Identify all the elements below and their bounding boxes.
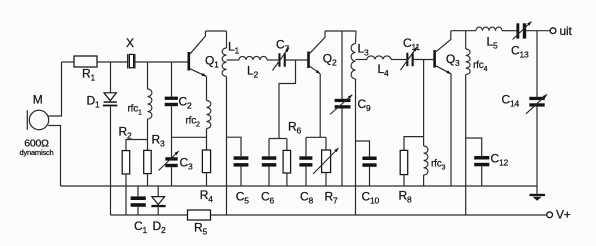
terminal V+	[547, 212, 553, 218]
svg-text:X: X	[126, 36, 134, 50]
wire V+ rail right	[211, 214, 547, 216]
wire rail2	[325, 30, 356, 32]
wire D2 bottom	[157, 207, 159, 215]
label D2	[153, 219, 166, 235]
label V+	[556, 208, 571, 222]
label M	[33, 92, 43, 106]
microphone M	[27, 110, 48, 130]
wire R3 bottom	[147, 174, 149, 186]
wire C9 bottom	[341, 109, 343, 187]
crystal X	[128, 54, 135, 69]
label rfc4	[473, 60, 488, 73]
capacitor C10	[362, 157, 376, 167]
capacitor C7 variable	[273, 48, 290, 71]
wire mic bottom lead	[48, 126, 60, 187]
wire R8 bottom	[403, 175, 405, 186]
inductor L3	[351, 31, 356, 79]
capacitor C9 variable	[330, 95, 352, 115]
label 600 ohm	[24, 138, 49, 150]
inductor L2	[239, 56, 267, 60]
label R1	[82, 67, 95, 83]
svg-text:dynamisch: dynamisch	[19, 148, 53, 157]
label L5	[487, 35, 498, 51]
wire rfc2 to R4	[206, 129, 208, 151]
inductor L5	[476, 27, 502, 31]
wire C3 bottom	[171, 167, 173, 186]
wire R1 to X	[97, 61, 127, 63]
label C1	[134, 219, 147, 235]
svg-text:V+: V+	[556, 208, 571, 222]
wire L1 tap to L2	[227, 59, 240, 61]
wire C10 branch	[356, 141, 370, 157]
wire rfc3 bottom	[423, 175, 425, 186]
wire R2 top	[126, 140, 148, 151]
label C5	[236, 189, 249, 205]
svg-text:uit: uit	[560, 24, 573, 38]
wire emitter2 junction	[306, 136, 326, 138]
wire L5 to C13	[502, 30, 516, 32]
label C7	[276, 38, 289, 54]
label R4	[200, 188, 213, 204]
wire R6 top	[286, 139, 288, 151]
wire C13 to uit	[526, 30, 550, 32]
label C11	[403, 36, 420, 52]
wire C5 bottom	[240, 167, 242, 186]
label rfc2	[186, 115, 201, 128]
wire C14 top	[536, 31, 538, 97]
wire C2 to C3	[171, 106, 173, 157]
wire L4 to C11	[391, 59, 406, 61]
label R8	[399, 189, 412, 205]
wire C2 top	[171, 62, 173, 97]
wire Q3 emitter to ground bus	[450, 74, 452, 186]
label X	[126, 36, 134, 50]
label R3	[152, 133, 165, 149]
wire Q2 emitter down	[319, 74, 321, 138]
wire mic top lead	[48, 62, 61, 116]
wire C1 top	[137, 186, 139, 196]
capacitor C1	[131, 196, 146, 206]
wire C6 top	[268, 139, 270, 157]
wire L1 bottom to V+ rail	[226, 77, 228, 216]
label Q3	[446, 52, 460, 68]
label uit	[560, 24, 573, 38]
wire D1 top	[110, 62, 112, 93]
resistor R5	[188, 210, 211, 220]
wire D1 to V+ rail	[110, 106, 112, 215]
label C2	[179, 95, 192, 111]
wire base2 drop	[279, 60, 296, 139]
wire ground bus	[61, 185, 538, 187]
wire R4 bottom	[206, 173, 208, 186]
capacitor C8	[299, 156, 312, 166]
inductor rfc4	[466, 31, 470, 75]
wire split C6 R6	[269, 138, 287, 140]
label Q2	[323, 52, 337, 68]
capacitor C2	[165, 97, 178, 107]
diode D2	[151, 197, 165, 208]
wire C8 top	[305, 137, 307, 156]
label L4	[378, 62, 389, 78]
label rfc1	[128, 103, 143, 116]
label L1	[228, 40, 239, 56]
wire C1 bottom	[137, 207, 139, 215]
wire rfc4 to V+ rail	[465, 75, 467, 216]
wire L3 tap to L4	[356, 59, 368, 61]
wire R8 top	[404, 137, 424, 151]
resistor R8	[400, 150, 408, 174]
ground	[530, 186, 546, 201]
inductor rfc3	[424, 146, 428, 175]
label C3	[180, 156, 193, 172]
label Q1	[205, 53, 219, 69]
wire rfc3 top	[423, 60, 425, 147]
capacitor C14 variable	[526, 94, 547, 114]
wire rail3	[451, 30, 476, 32]
inductor rfc1	[148, 89, 152, 119]
wire C9 top	[341, 31, 343, 99]
wire C12 branch	[466, 138, 482, 156]
wire C6 bottom	[268, 167, 270, 186]
wire C12 bottom	[481, 166, 483, 186]
transistor Q1	[188, 31, 207, 76]
wire rfc1 to R3	[147, 119, 149, 150]
label dynamisch	[19, 148, 53, 157]
capacitor C11 variable	[401, 47, 418, 70]
inductor L4	[367, 56, 391, 60]
wire C5 branch	[227, 137, 242, 156]
label R6	[288, 119, 301, 135]
wire R7 bottom	[325, 173, 327, 187]
wire V+ rail left	[111, 214, 188, 216]
terminal uit	[550, 28, 556, 34]
diode D1	[103, 93, 117, 107]
capacitor C3 variable	[159, 151, 179, 171]
wire rail1	[206, 30, 227, 32]
resistor R2	[122, 151, 130, 174]
label L3	[358, 42, 369, 58]
label C14	[502, 93, 520, 109]
resistor R4	[202, 150, 210, 173]
transistor Q3	[433, 31, 451, 74]
wire C7 to Q2 base	[284, 59, 307, 61]
label C13	[511, 44, 529, 60]
wire X to Q1 base	[136, 61, 188, 63]
wire rfc2 emitter	[206, 76, 208, 100]
label C12	[491, 151, 509, 167]
resistor R7 variable	[313, 148, 339, 174]
wire C2C3 junction to emitter column	[172, 136, 207, 138]
wire R6 bottom	[286, 173, 288, 186]
label rfc3	[431, 159, 446, 172]
label C9	[358, 97, 371, 113]
label C8	[300, 189, 313, 205]
label R7	[325, 189, 338, 205]
transistor Q2	[307, 31, 325, 74]
wire C8 bottom	[305, 167, 307, 186]
wire R2 to V+ rail	[125, 174, 127, 215]
wire C10 bottom	[369, 167, 371, 186]
capacitor C6	[262, 156, 277, 166]
capacitor C13 variable	[513, 22, 532, 40]
capacitor C12	[474, 156, 489, 166]
wire C14 bottom	[536, 107, 538, 186]
label L2	[247, 64, 258, 80]
wire L3 bottom to V+ rail	[355, 79, 357, 215]
wire C11 to Q3 base	[412, 59, 433, 61]
wire D2 top	[157, 186, 159, 197]
label C6	[261, 189, 274, 205]
resistor R3	[144, 150, 152, 173]
label D1	[87, 93, 100, 109]
wire rfc1 top	[147, 62, 149, 89]
wire L2 to C7	[267, 59, 278, 61]
inductor rfc2	[207, 101, 211, 129]
label R2	[119, 125, 132, 141]
svg-text:M: M	[33, 92, 43, 106]
resistor R6	[283, 150, 291, 173]
wire R7 top	[325, 137, 327, 150]
resistor R1	[74, 56, 97, 67]
label C10	[362, 190, 380, 206]
label R5	[194, 221, 207, 237]
wire R1 left	[62, 61, 75, 63]
inductor L1	[222, 31, 226, 77]
capacitor C5	[234, 156, 249, 166]
